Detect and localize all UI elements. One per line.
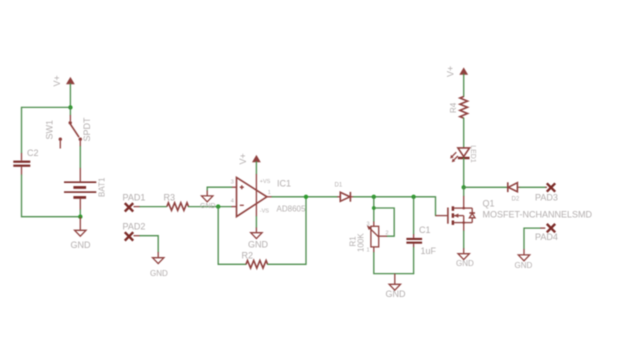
supply symbol V+ (left) bbox=[67, 78, 74, 84]
capacitor C2 bbox=[13, 161, 30, 167]
ground symbol (Q1 source) bbox=[458, 248, 469, 259]
node junction battery bottom bbox=[78, 215, 82, 219]
ground symbol (PAD4) bbox=[518, 249, 529, 261]
wire PAD2 to ground bbox=[134, 235, 141, 237]
svg-text:C1: C1 bbox=[419, 225, 431, 235]
svg-text:IC1: IC1 bbox=[277, 179, 291, 189]
wire switch to battery bbox=[79, 147, 81, 169]
wire V+ to junction bbox=[69, 84, 71, 108]
svg-text:SW1: SW1 bbox=[45, 120, 55, 140]
ground symbol (battery) bbox=[75, 217, 86, 237]
svg-text:GND: GND bbox=[386, 289, 407, 299]
ground symbol (op-amp VS-) bbox=[251, 228, 262, 239]
wire left rail down to C2 bbox=[21, 107, 23, 153]
svg-text:D2: D2 bbox=[512, 196, 520, 202]
wire R2 to output node bbox=[268, 197, 306, 264]
svg-text:GND: GND bbox=[150, 269, 168, 278]
svg-text:1: 1 bbox=[367, 248, 370, 254]
wire V+ to R4 bbox=[463, 74, 465, 96]
capacitor C1 bbox=[406, 234, 422, 247]
svg-text:1: 1 bbox=[268, 190, 271, 196]
battery BAT1 bbox=[64, 181, 96, 198]
supply symbol V+ (right) bbox=[460, 68, 467, 74]
node junction output/feedback bbox=[304, 195, 308, 199]
svg-text:BAT1: BAT1 bbox=[98, 177, 107, 197]
svg-text:GND: GND bbox=[456, 259, 474, 268]
wire junction to switch common bbox=[69, 107, 71, 115]
wire PAD4 to gnd bbox=[524, 228, 540, 249]
wire op-amp VS- to gnd bbox=[255, 217, 257, 228]
resistor R2 bbox=[246, 261, 268, 269]
svg-text:Q1: Q1 bbox=[483, 199, 495, 209]
resistor R3 bbox=[167, 203, 189, 211]
wire junction to left rail bbox=[22, 106, 71, 108]
svg-text:SPDT: SPDT bbox=[82, 117, 92, 142]
wire junction to D2 bbox=[464, 186, 508, 188]
resistor R4 bbox=[460, 97, 468, 119]
battery pin bottom bbox=[79, 199, 81, 210]
svg-text:D1: D1 bbox=[335, 183, 343, 189]
svg-text:PAD4: PAD4 bbox=[535, 232, 558, 242]
wire wiper tie loop bbox=[374, 208, 394, 236]
svg-text:1uF: 1uF bbox=[421, 246, 437, 256]
wire D2 to PAD3 bbox=[520, 186, 545, 188]
transistor Q1 bbox=[448, 187, 475, 225]
svg-text:PAD2: PAD2 bbox=[123, 221, 146, 231]
svg-text:R3: R3 bbox=[164, 192, 176, 202]
pad PAD4 bbox=[540, 224, 555, 232]
node junction feedback tap bbox=[216, 204, 220, 208]
svg-text:V+: V+ bbox=[52, 75, 62, 86]
ground symbol (op-amp +input) bbox=[202, 191, 213, 202]
wire source to gnd bbox=[463, 223, 465, 231]
wire LED1 to junction bbox=[463, 158, 465, 187]
node junction LED/drain/D2 bbox=[462, 185, 466, 189]
switch SW1 bbox=[59, 121, 82, 148]
supply symbol V+ (op-amp) bbox=[253, 156, 260, 162]
diode D2 bbox=[508, 182, 520, 192]
ground symbol (PAD2) bbox=[153, 252, 164, 264]
switch SW1 common pin bbox=[69, 115, 71, 121]
wire R4 to LED1 bbox=[463, 118, 465, 148]
pin stub C2 bottom bbox=[21, 167, 23, 175]
svg-text:MOSFET-NCHANNELSMD: MOSFET-NCHANNELSMD bbox=[483, 209, 593, 219]
wire R1 bottom to gnd rail bbox=[374, 253, 414, 274]
diode D1 bbox=[337, 192, 353, 202]
svg-text:V+: V+ bbox=[238, 153, 248, 164]
svg-text:-VS: -VS bbox=[260, 209, 270, 215]
pad PAD2 bbox=[125, 232, 133, 240]
wire gate pin bbox=[436, 215, 448, 217]
node junction R1 branch bbox=[372, 195, 376, 199]
wire C1 bottom bbox=[413, 248, 415, 274]
ground symbol (R1/C1) bbox=[389, 274, 400, 291]
pin stub C2 top bbox=[21, 153, 23, 160]
svg-text:PAD3: PAD3 bbox=[535, 192, 558, 202]
trimmer R1 bbox=[367, 222, 387, 253]
svg-text:GND: GND bbox=[200, 203, 216, 210]
node junction top-left bbox=[68, 105, 72, 109]
svg-text:PAD1: PAD1 bbox=[123, 192, 146, 202]
svg-text:3: 3 bbox=[231, 180, 234, 186]
op-amp output pin bbox=[267, 196, 272, 198]
wire PAD1 to R3 bbox=[134, 206, 141, 208]
wire down to trimmer R1 bbox=[373, 197, 375, 222]
wire C2 to bottom rail bbox=[22, 175, 81, 217]
wire D1 to gate corner bbox=[354, 197, 436, 216]
svg-text:R2: R2 bbox=[242, 251, 254, 261]
svg-text:LED1: LED1 bbox=[469, 145, 476, 163]
wire op-amp +input to gnd bbox=[232, 186, 237, 188]
wire C1 top bbox=[413, 197, 415, 235]
op-amp IC1 bbox=[237, 178, 267, 217]
svg-text:+VS: +VS bbox=[260, 179, 271, 185]
battery BAT1 pin top bbox=[79, 168, 81, 181]
svg-text:R4: R4 bbox=[449, 102, 458, 113]
pad PAD1 bbox=[125, 203, 133, 211]
svg-text:3: 3 bbox=[367, 222, 370, 228]
svg-text:4: 4 bbox=[231, 198, 234, 204]
svg-text:AD8605: AD8605 bbox=[277, 204, 306, 213]
node junction C1 branch bbox=[411, 195, 415, 199]
LED LED1 bbox=[450, 148, 469, 162]
wire battery to gnd junction bbox=[79, 210, 81, 217]
svg-text:GND: GND bbox=[71, 240, 92, 250]
svg-text:100K: 100K bbox=[357, 233, 366, 252]
wire V+ to op-amp VS+ bbox=[255, 162, 257, 174]
op-amp power pin line bbox=[255, 174, 257, 217]
svg-text:C2: C2 bbox=[27, 148, 39, 158]
svg-text:2: 2 bbox=[386, 230, 389, 236]
node junction wiper tie bbox=[372, 206, 376, 210]
svg-text:GND: GND bbox=[515, 261, 533, 270]
wire R3 to op-amp inverting input bbox=[189, 206, 232, 208]
svg-text:V+: V+ bbox=[446, 66, 456, 77]
pad PAD3 bbox=[545, 183, 555, 191]
wire feedback down bbox=[218, 207, 246, 265]
svg-text:GND: GND bbox=[248, 240, 269, 250]
wire output to D1 bbox=[272, 196, 337, 198]
